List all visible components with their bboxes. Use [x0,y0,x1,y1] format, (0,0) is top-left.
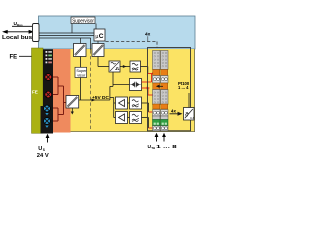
A/D converter box [109,61,120,72]
wire measuring arrow in terminal [158,85,163,87]
svg-text:S: S [43,148,45,152]
gray thin row [153,116,161,120]
filter F2 box [130,97,142,109]
orange 24V zone [53,49,71,133]
wire amp rows left connections [128,103,130,118]
test socket red 2 [45,91,52,98]
node Us 24V supply [47,138,49,143]
svg-text:U: U [38,146,42,152]
wire box1 to supervisor2 to +5V rail [80,57,82,101]
svg-text:Local bus: Local bus [2,35,32,41]
orange row 1 [153,70,160,76]
microcontroller U1 (µC) [94,29,105,41]
filter F1 box [130,61,141,72]
orange row 3 [153,104,160,109]
wire local bus lines to uC [39,24,98,51]
wire filter1 to terminals (black then red) [141,67,148,74]
bus zone (blue region) [39,16,196,49]
olive FE strip [32,48,44,133]
isolator box 1 (local bus isolation) [74,44,87,57]
circle row 1 [153,76,161,84]
gray segment 1 [153,51,161,70]
wire filter2 to terminal [142,103,149,112]
svg-text:TH: TH [151,146,155,150]
black terminal strip [43,49,53,133]
svg-text:4x: 4x [171,109,176,114]
temperature sensor CJ box [184,108,195,121]
local bus connector box [33,24,40,42]
test socket blue 1 [44,105,51,115]
wire red sensor lines [142,74,154,96]
wire dashed 4x channel line [106,42,158,48]
maroon supply bracket (red test sockets) [53,77,66,121]
wire U_Bus underline [12,25,33,27]
svg-text:C: C [99,33,104,40]
svg-text:FE: FE [10,55,18,61]
svg-text:FE: FE [32,90,38,95]
amplifier A2 box [116,112,128,124]
orange row 2 [153,83,160,90]
wire arrow into CJ sensor [170,113,179,115]
svg-text:visor: visor [77,73,86,77]
wire filter3 to green terminal [142,118,149,129]
wire A/D bottom to TVS and amp rail [110,72,130,118]
circle row 2 [153,110,161,117]
DC/DC converter box (hatched) [66,96,79,109]
supervisor2 box [75,67,87,77]
terminal column blocks [153,51,169,131]
amplifier A1 box [116,97,128,109]
svg-text:1 ... 4: 1 ... 4 [178,85,189,90]
svg-text:24 V: 24 V [37,153,49,159]
test socket red 1 [45,74,52,81]
green connector blocks [153,120,161,126]
terminal dot pattern gray seg1 [154,52,167,103]
yellow electronics zone [71,49,195,132]
svg-text:1 ... 8: 1 ... 8 [156,144,177,150]
wire +5V DC line [79,99,110,101]
test socket blue 2 [44,118,51,128]
dashed divider in yellow zone [90,50,92,130]
gray segment 2 [153,90,161,105]
TVS / reference box [130,79,142,91]
wire DC/DC down stub with arrow [71,108,73,112]
filter F3 box [130,112,142,124]
supervisor U2 box [71,17,95,24]
svg-text:+5V DC: +5V DC [92,95,109,101]
wire A/D to filter1 with arrow [120,66,130,68]
wire FE to olive strip [19,55,32,57]
wire local bus double arrow [3,30,33,33]
svg-text:Supervisor: Supervisor [72,18,94,24]
node UTH arrows [156,136,158,142]
isolator box 2 (data isolation) [92,44,104,57]
wire to cold junction sensor [188,93,190,108]
bottom circles row [153,126,161,131]
black strip LED rows [46,51,52,63]
wire box2 to A/D [98,57,109,67]
terminal outer box [148,48,191,131]
svg-text:CJ: CJ [190,116,194,120]
